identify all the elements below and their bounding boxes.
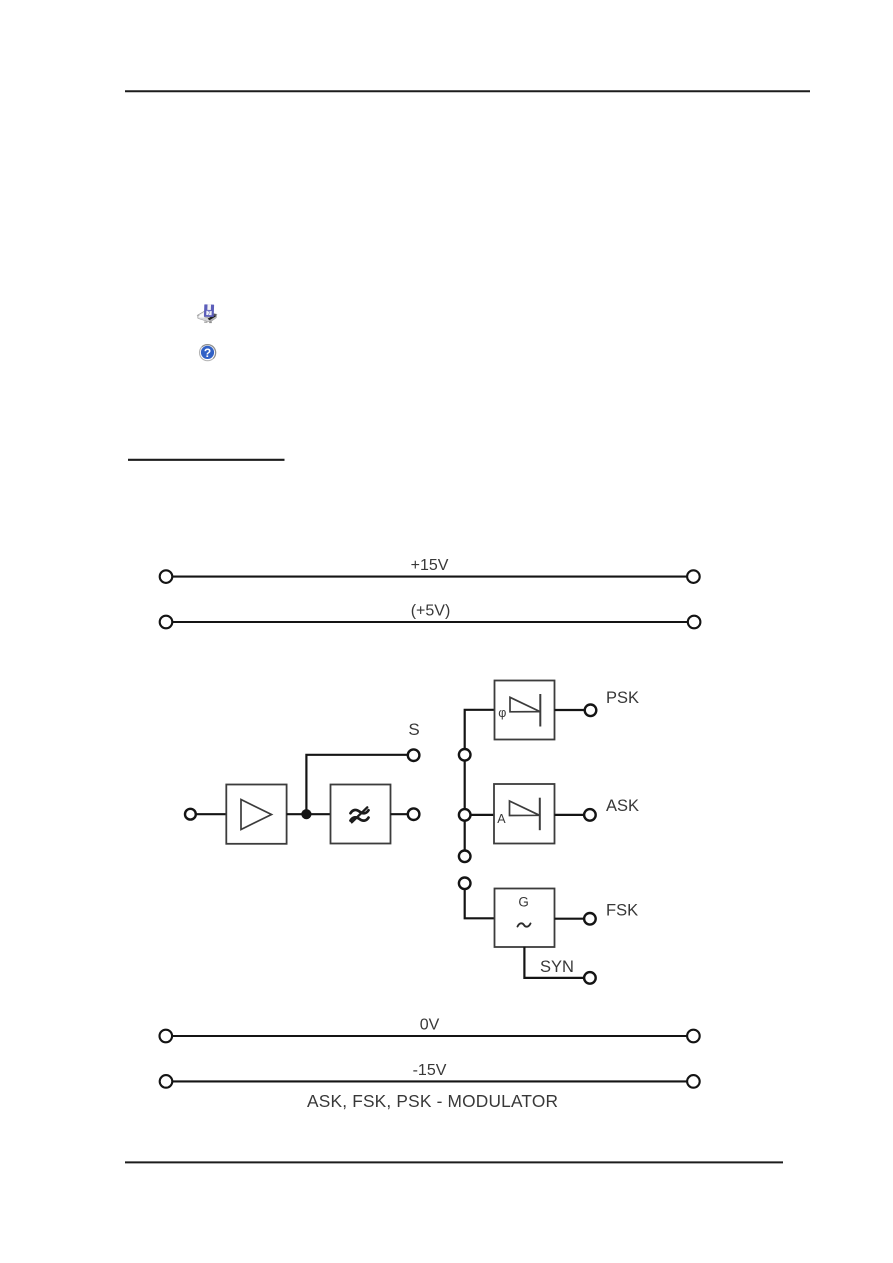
svg-text:φ: φ bbox=[498, 706, 506, 720]
wire ASK box to terminal bbox=[555, 814, 585, 816]
0V left terminal bbox=[160, 1030, 173, 1043]
help toolbar icon bbox=[200, 345, 216, 361]
+15V rail wire bbox=[173, 576, 688, 578]
FSK feed terminal bbox=[459, 878, 471, 890]
(+5V) left terminal bbox=[160, 616, 173, 629]
svg-text:+15V: +15V bbox=[411, 557, 449, 574]
PSK terminal bbox=[585, 705, 597, 717]
filter box bbox=[331, 785, 391, 844]
amplifier triangle symbol bbox=[241, 800, 272, 830]
output terminal bbox=[408, 808, 420, 820]
svg-text:7: 7 bbox=[207, 311, 210, 317]
save/export toolbar icon bbox=[198, 304, 217, 323]
ASK modulator box U2 bbox=[494, 784, 555, 844]
bus terminal upper bbox=[459, 749, 471, 761]
distribution bus wire to PSK bbox=[465, 710, 495, 857]
svg-text:S: S bbox=[408, 720, 419, 739]
amplifier box bbox=[226, 785, 286, 844]
wire FSK box to terminal bbox=[555, 918, 585, 920]
wire filter to output bbox=[391, 813, 408, 815]
wire bus to ASK box bbox=[471, 814, 495, 816]
top page rule bbox=[125, 90, 810, 92]
junction node bbox=[301, 809, 311, 819]
SYN terminal bbox=[584, 972, 596, 984]
+15V right terminal bbox=[687, 570, 700, 583]
wire FSK feed to generator bbox=[465, 889, 495, 918]
FSK generator box G1 bbox=[495, 889, 555, 948]
wire generator to SYN terminal bbox=[524, 947, 584, 978]
(+5V) right terminal bbox=[688, 616, 701, 629]
svg-text:-15V: -15V bbox=[413, 1062, 447, 1079]
wire junction up to S bbox=[306, 755, 407, 814]
PSK modulator symbol bbox=[510, 694, 540, 727]
wire PSK box to terminal bbox=[555, 709, 585, 711]
svg-text:0V: 0V bbox=[420, 1017, 440, 1034]
0V right terminal bbox=[687, 1030, 700, 1043]
filter symbol (crossed tildes) bbox=[351, 807, 369, 822]
bottom page rule bbox=[125, 1161, 783, 1163]
svg-text:PSK: PSK bbox=[606, 689, 639, 707]
S terminal bbox=[408, 749, 420, 761]
ASK terminal bbox=[584, 809, 596, 821]
heading underline bbox=[128, 459, 285, 461]
-15V right terminal bbox=[687, 1075, 700, 1088]
FSK terminal bbox=[584, 913, 596, 925]
-15V left terminal bbox=[160, 1075, 173, 1088]
svg-text:SYN: SYN bbox=[540, 958, 574, 976]
svg-text:?: ? bbox=[204, 346, 211, 360]
svg-text:G: G bbox=[518, 895, 528, 910]
svg-text:A: A bbox=[497, 812, 506, 826]
PSK modulator box U1 bbox=[495, 681, 555, 740]
+15V left terminal bbox=[160, 570, 173, 583]
bus terminal lower end bbox=[459, 851, 471, 863]
wire amplifier to filter bbox=[287, 813, 331, 815]
ASK modulator symbol bbox=[510, 798, 540, 831]
wire input to amplifier bbox=[197, 813, 227, 815]
-15V rail wire bbox=[173, 1080, 688, 1082]
input terminal bbox=[185, 809, 196, 820]
svg-text:(+5V): (+5V) bbox=[411, 603, 451, 620]
0V rail wire bbox=[173, 1035, 688, 1037]
svg-text:FSK: FSK bbox=[606, 901, 638, 919]
(+5V) rail wire bbox=[173, 621, 688, 623]
svg-text:ASK, FSK, PSK - MODULATOR: ASK, FSK, PSK - MODULATOR bbox=[307, 1091, 558, 1111]
bus junction terminal ASK bbox=[459, 809, 471, 821]
sine symbol bbox=[518, 923, 531, 926]
svg-text:ASK: ASK bbox=[606, 797, 639, 815]
